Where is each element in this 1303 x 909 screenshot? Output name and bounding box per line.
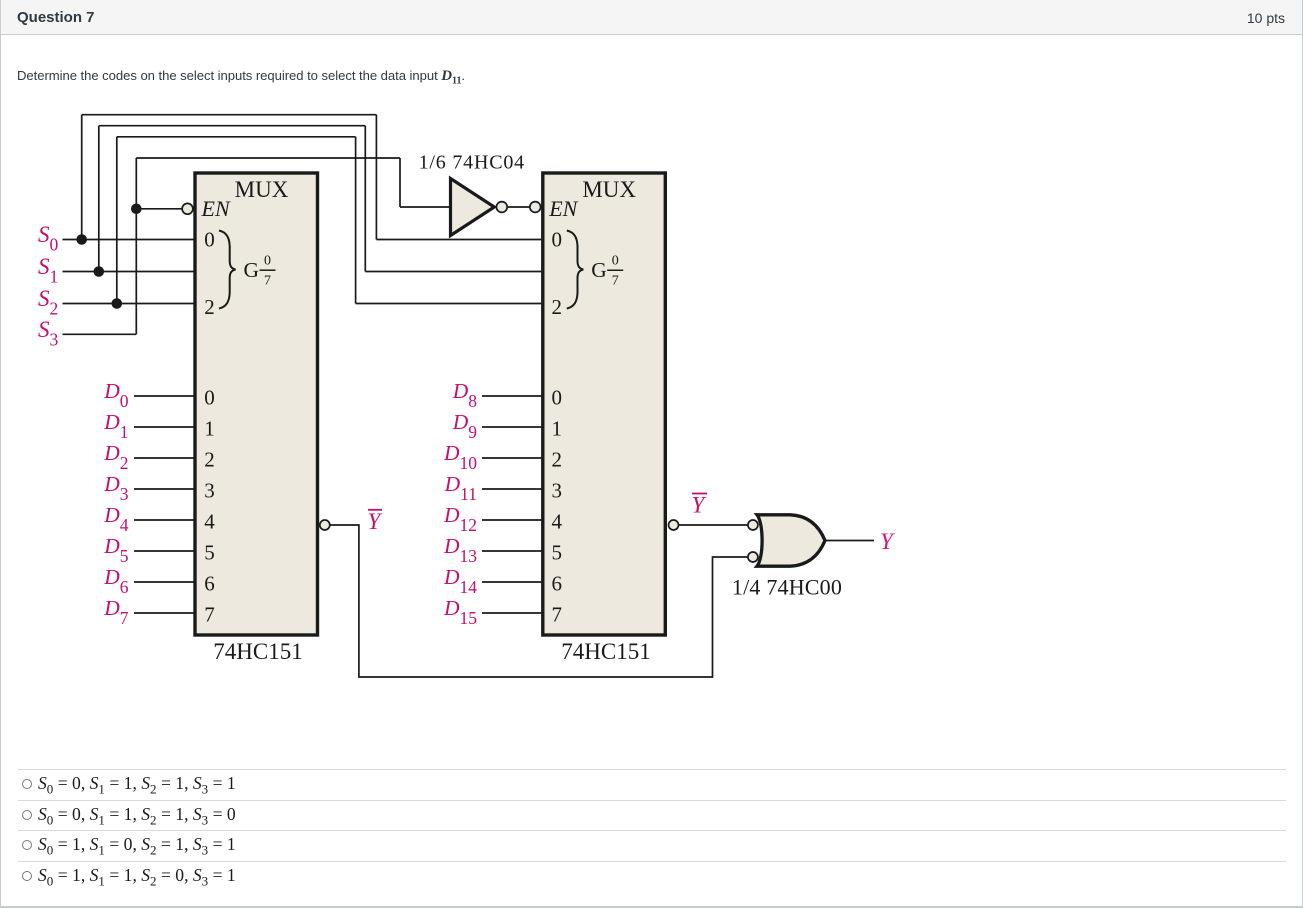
wire D2 lead xyxy=(134,457,195,459)
svg-text:D6: D6 xyxy=(103,565,129,597)
wire D15 lead xyxy=(482,612,543,614)
svg-text:D3: D3 xyxy=(103,472,129,504)
wire D5 lead xyxy=(134,550,195,552)
wire D13 lead xyxy=(482,550,543,552)
svg-text:D9: D9 xyxy=(452,410,478,442)
wire D9 lead xyxy=(482,426,543,428)
wire S1 right vertical down xyxy=(364,126,366,272)
svg-text:2: 2 xyxy=(552,447,563,471)
svg-text:D5: D5 xyxy=(103,534,129,566)
gate U4 1/4 74HC00 negative-OR body xyxy=(757,515,825,566)
svg-text:4: 4 xyxy=(204,509,215,533)
svg-text:1/6 74HC04: 1/6 74HC04 xyxy=(419,151,525,173)
wire S0 vertical up xyxy=(81,115,83,240)
wire S3 top horizontal xyxy=(136,157,400,159)
svg-text:S0: S0 xyxy=(38,222,59,255)
wire S2 right vertical down xyxy=(355,137,357,304)
svg-text:S3: S3 xyxy=(38,317,59,350)
wire S3 lead xyxy=(63,333,137,335)
wire S1 top horizontal xyxy=(99,125,366,127)
brace right MUX xyxy=(567,231,584,309)
svg-text:S2: S2 xyxy=(38,286,58,319)
svg-text:1: 1 xyxy=(204,416,215,440)
svg-text:5: 5 xyxy=(552,540,563,564)
svg-text:74HC151: 74HC151 xyxy=(213,639,302,664)
wire D7 lead xyxy=(134,612,195,614)
wire D10 lead xyxy=(482,457,543,459)
svg-text:7: 7 xyxy=(612,274,619,289)
wire S0 right vertical down xyxy=(375,115,377,240)
gate input bubble upper xyxy=(748,520,758,530)
svg-text:D10: D10 xyxy=(443,441,477,473)
op-amp U1 left MUX 74HC151 box xyxy=(195,173,318,635)
svg-text:Y: Y xyxy=(880,529,895,554)
svg-text:7: 7 xyxy=(264,274,271,289)
inverter U3 1/6 74HC04 triangle xyxy=(451,179,495,236)
svg-text:D15: D15 xyxy=(443,596,477,628)
wire D8 lead xyxy=(482,395,543,397)
svg-text:0: 0 xyxy=(552,228,563,252)
svg-text:0: 0 xyxy=(204,228,215,252)
svg-text:6: 6 xyxy=(552,571,563,595)
wire S1 vertical up xyxy=(98,126,100,272)
svg-text:2: 2 xyxy=(204,447,215,471)
svg-text:D7: D7 xyxy=(103,596,129,628)
wire S2 vertical up xyxy=(116,137,118,304)
svg-text:7: 7 xyxy=(552,602,563,626)
left MUX output bubble xyxy=(320,520,330,530)
junction S0 xyxy=(76,234,87,245)
inverter output bubble xyxy=(496,202,507,213)
svg-text:D8: D8 xyxy=(452,379,478,411)
junction S1 xyxy=(94,266,105,277)
wire S1 lead xyxy=(63,271,196,273)
svg-text:74HC151: 74HC151 xyxy=(561,639,650,664)
svg-text:D13: D13 xyxy=(443,534,477,566)
svg-text:D12: D12 xyxy=(443,503,477,535)
svg-text:EN: EN xyxy=(201,196,231,221)
wire D3 lead xyxy=(134,488,195,490)
brace left MUX xyxy=(219,231,236,309)
svg-text:MUX: MUX xyxy=(235,177,289,202)
svg-text:0: 0 xyxy=(204,385,215,409)
wire D4 lead xyxy=(134,519,195,521)
svg-text:MUX: MUX xyxy=(582,177,636,202)
svg-text:D4: D4 xyxy=(103,503,129,535)
svg-text:G: G xyxy=(244,258,260,282)
svg-text:5: 5 xyxy=(204,540,215,564)
wire D14 lead xyxy=(482,581,543,583)
svg-text:3: 3 xyxy=(552,478,563,502)
svg-text:7: 7 xyxy=(204,602,215,626)
wire D0 lead xyxy=(134,395,195,397)
svg-text:3: 3 xyxy=(204,478,215,502)
svg-text:4: 4 xyxy=(552,509,563,533)
junction S2 xyxy=(112,298,123,309)
wire S2 top horizontal xyxy=(117,136,356,138)
wire S3 vertical up xyxy=(135,158,137,334)
wire inverter input xyxy=(400,206,450,208)
wire left MUX Y-bar output run xyxy=(330,525,748,677)
svg-text:D14: D14 xyxy=(443,565,477,597)
svg-text:EN: EN xyxy=(548,196,578,221)
svg-text:S1: S1 xyxy=(38,254,58,287)
svg-text:D11: D11 xyxy=(444,472,477,504)
svg-text:1: 1 xyxy=(552,416,563,440)
wire S2 to right MUX pin 2 xyxy=(356,303,543,305)
svg-text:2: 2 xyxy=(204,295,215,319)
svg-text:Y: Y xyxy=(368,509,383,534)
svg-text:1/4 74HC00: 1/4 74HC00 xyxy=(732,575,842,600)
wire S3 down to inverter xyxy=(399,158,401,207)
op-amp U2 right MUX 74HC151 box xyxy=(543,173,666,635)
right MUX output bubble xyxy=(669,520,679,530)
wire S0 to right MUX pin 0 xyxy=(376,239,542,241)
wire right MUX Y-bar to gate xyxy=(679,524,748,526)
wire S0 lead xyxy=(63,239,196,241)
svg-text:0: 0 xyxy=(552,385,563,409)
right MUX EN bubble xyxy=(530,202,541,213)
wire EN branch to left MUX xyxy=(136,208,182,210)
wire gate output xyxy=(825,540,874,542)
wire D6 lead xyxy=(134,581,195,583)
svg-text:D1: D1 xyxy=(103,410,128,442)
svg-text:0: 0 xyxy=(612,254,619,269)
wire D11 lead xyxy=(482,488,543,490)
wire S1 to right MUX pin 1 xyxy=(365,271,543,273)
svg-text:G: G xyxy=(591,258,607,282)
wire inverter output to right EN xyxy=(507,206,529,208)
wire S2 lead xyxy=(63,303,196,305)
junction S3 at EN branch xyxy=(131,204,142,215)
wire D1 lead xyxy=(134,426,195,428)
wire S0 top horizontal xyxy=(82,114,377,116)
svg-text:0: 0 xyxy=(264,254,271,269)
svg-text:Y: Y xyxy=(692,493,707,518)
left MUX EN bubble xyxy=(182,203,193,214)
svg-text:D2: D2 xyxy=(103,441,128,473)
gate input bubble lower xyxy=(748,552,758,562)
wire D12 lead xyxy=(482,519,543,521)
svg-text:2: 2 xyxy=(552,295,563,319)
svg-text:6: 6 xyxy=(204,571,215,595)
svg-text:D0: D0 xyxy=(103,379,129,411)
